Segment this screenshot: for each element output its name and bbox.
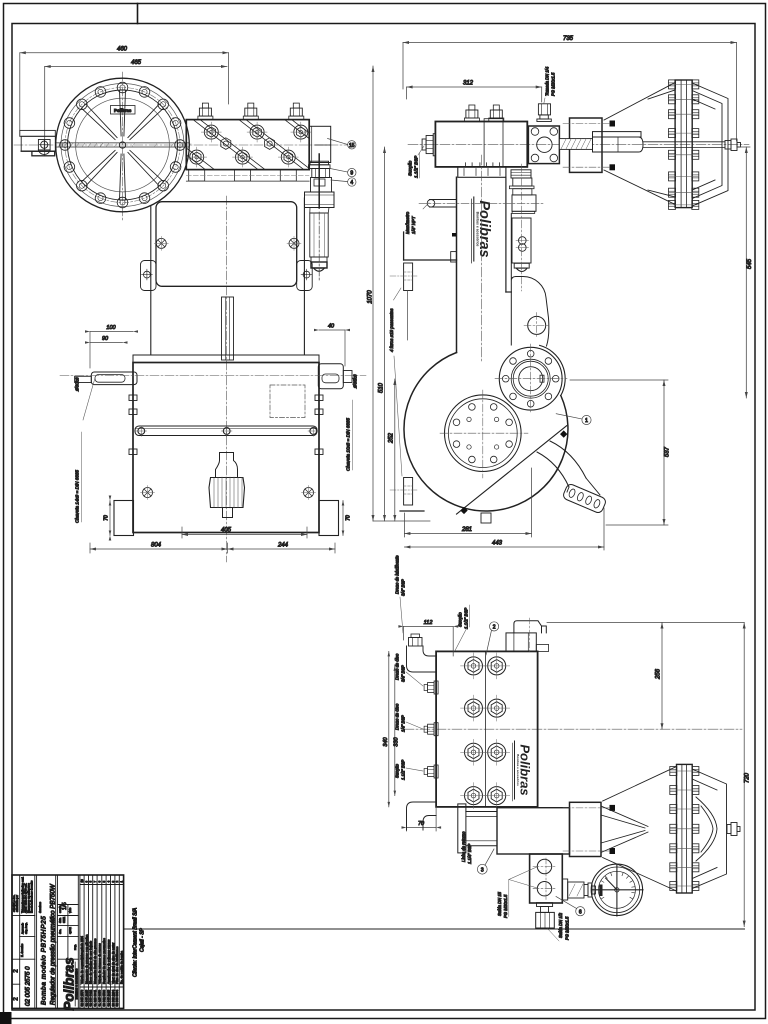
svg-text:Valvula de retencao da succao: Valvula de retencao da succao	[98, 943, 102, 984]
upper foot with dashed hole	[390, 263, 418, 340]
balloon 3	[477, 849, 494, 874]
svg-text:112: 112	[424, 620, 433, 626]
svg-text:1.1/2" BSP: 1.1/2" BSP	[464, 608, 469, 629]
title block grid	[12, 875, 124, 1008]
dim 112	[398, 625, 458, 656]
svg-text:Regulador de pressão pneumátic: Regulador de pressão pneumático PB750W	[50, 883, 57, 1005]
svg-text:804: 804	[151, 543, 162, 549]
dim 465	[45, 65, 227, 156]
valve nuts lower row	[187, 147, 299, 167]
svg-text:312: 312	[463, 81, 474, 87]
svg-text:Mangueira flexivel de alta pre: Mangueira flexivel de alta pressao	[93, 938, 97, 984]
relief valve stack	[305, 154, 335, 280]
dim 256	[547, 623, 744, 730]
diagonal parting line	[457, 426, 567, 514]
dim 40	[314, 329, 350, 366]
svg-text:PG M20x1.5: PG M20x1.5	[565, 916, 570, 940]
right crankshaft end keyed	[318, 364, 352, 389]
svg-text:Sucção: Sucção	[458, 612, 463, 627]
svg-text:Cajati - SP: Cajati - SP	[140, 927, 146, 952]
lower foot	[390, 478, 424, 512]
dim 70 right	[342, 501, 345, 536]
discharge stack	[530, 854, 563, 903]
svg-text:Ø35k6: Ø35k6	[353, 374, 358, 389]
top studs	[464, 105, 479, 122]
svg-text:443: 443	[492, 541, 503, 547]
svg-text:6: 6	[579, 909, 582, 915]
bottom drain plug	[481, 513, 491, 523]
fluid end block	[186, 120, 309, 170]
drain assembly	[209, 453, 245, 518]
pulsation damper	[309, 126, 331, 162]
svg-text:Amortecedor de pulsacao succao: Amortecedor de pulsacao succao	[106, 939, 110, 984]
dim 537	[570, 380, 668, 525]
svg-text:descricao: descricao	[38, 901, 42, 913]
plunger rod hatched	[559, 139, 592, 150]
motor flange	[675, 80, 692, 208]
hub	[119, 142, 125, 148]
dim 1070 vertical right	[372, 66, 431, 521]
svg-text:70: 70	[104, 515, 110, 521]
svg-text:545: 545	[747, 258, 753, 269]
suction pads under block	[186, 170, 309, 182]
svg-text:1: 1	[585, 418, 588, 424]
oil filter column	[509, 164, 536, 291]
balloon 1	[556, 414, 591, 425]
svg-text:1.1/2" BSP: 1.1/2" BSP	[414, 155, 419, 178]
16 flange bolts	[60, 82, 186, 208]
center hex plugs	[221, 138, 275, 150]
gear housing	[150, 206, 152, 355]
svg-text:des.: des.	[58, 929, 62, 934]
bed plate left bracket	[20, 130, 56, 155]
svg-text:2: 2	[14, 969, 20, 973]
flywheel flange outer	[56, 78, 190, 212]
svg-text:2: 2	[14, 997, 20, 1001]
suction end cap	[422, 134, 435, 156]
svg-text:70: 70	[346, 515, 352, 521]
dim 545	[740, 147, 750, 398]
crankcase body	[133, 363, 319, 533]
power end top plate	[458, 163, 506, 177]
svg-text:Dreno de óleo: Dreno de óleo	[395, 653, 400, 680]
lower cover flange	[440, 390, 528, 478]
dim 70 left	[109, 496, 112, 541]
vertical centerline power end	[481, 155, 483, 362]
bell cone front	[601, 767, 677, 892]
svg-text:02 000 0064: 02 000 0064	[115, 989, 119, 1006]
flange through bolts front view	[670, 771, 699, 886]
dim 804 244	[90, 543, 335, 553]
pump axis centerline	[404, 728, 742, 730]
svg-text:01 025 0350: 01 025 0350	[98, 989, 102, 1006]
svg-text:Regulador de pressao pneumatic: Regulador de pressao pneumatico	[102, 938, 106, 984]
svg-text:Saída DN 1/2: Saída DN 1/2	[558, 912, 563, 938]
left bracket shelf	[404, 232, 457, 260]
drain dot	[452, 233, 456, 237]
svg-text:PG M20x1.5: PG M20x1.5	[503, 894, 508, 918]
dim 90	[85, 341, 128, 344]
svg-text:720: 720	[745, 772, 751, 783]
polibras logo v3	[512, 741, 532, 801]
svg-text:3: 3	[111, 881, 115, 883]
balloon 6	[556, 897, 585, 916]
svg-text:1/5: 1/5	[62, 902, 68, 910]
svg-text:537: 537	[665, 446, 671, 457]
svg-text:Sucção: Sucção	[395, 763, 400, 778]
svg-text:Dreno de óleo: Dreno de óleo	[395, 703, 400, 730]
gauge valve fitting	[562, 879, 595, 900]
svg-text:Dreno de lubrificante: Dreno de lubrificante	[395, 555, 400, 594]
svg-text:escala: escala	[58, 905, 62, 913]
svg-text:Visor do nivel de oleo do cart: Visor do nivel de oleo do carter	[111, 943, 115, 984]
dim 720	[743, 623, 746, 927]
svg-text:3/4" BSP: 3/4" BSP	[401, 579, 406, 596]
balloon 2	[486, 622, 499, 655]
leader balloons 15 9 4	[328, 139, 356, 187]
svg-text:Cliente: InterCement Brasil S/: Cliente: InterCement Brasil S/A	[133, 907, 139, 977]
svg-text:252: 252	[388, 432, 394, 444]
motor outline front	[692, 769, 726, 889]
svg-text:eng. resp.: eng. resp.	[24, 922, 28, 934]
crankcase arc	[404, 353, 568, 512]
svg-text:Aprovado: Aprovado	[21, 922, 25, 934]
svg-text:01 020 0041: 01 020 0041	[93, 989, 97, 1006]
crank centerline	[60, 375, 366, 377]
fluid end block side	[435, 119, 527, 167]
bearing lobe	[540, 345, 566, 395]
suction elbow	[537, 441, 607, 514]
polibras logo v2	[471, 197, 492, 263]
svg-text:No. de partida da bomba: No. de partida da bomba	[120, 951, 124, 984]
stub front	[727, 823, 740, 836]
dim 340 330	[388, 651, 397, 807]
bolt circle dashed	[65, 88, 180, 203]
spacer block	[563, 118, 615, 172]
svg-text:3: 3	[481, 867, 484, 873]
svg-text:6: 6	[98, 881, 102, 883]
svg-text:Qtde: Qtde	[80, 953, 84, 960]
svg-text:Bombas e acessórios: Bombas e acessórios	[475, 212, 479, 247]
dim 70 bottom	[402, 807, 442, 831]
svg-text:4: 4	[106, 881, 110, 883]
base manifold	[497, 808, 570, 854]
svg-text:4 furos ø19 passantes: 4 furos ø19 passantes	[389, 308, 394, 352]
svg-text:9: 9	[350, 171, 353, 177]
valve cover square	[528, 126, 559, 164]
svg-text:735: 735	[563, 36, 574, 42]
flange bolts	[669, 80, 699, 210]
svg-text:510: 510	[379, 382, 385, 393]
svg-text:00 002 0560: 00 002 0560	[102, 989, 106, 1006]
dim 443	[404, 508, 604, 550]
svg-text:Polibras: Polibras	[114, 108, 132, 113]
svg-text:100: 100	[106, 325, 116, 331]
power end body	[451, 177, 512, 352]
breather dashed square	[270, 385, 305, 418]
svg-text:2: 2	[493, 625, 496, 631]
bottom return pipe	[407, 802, 437, 830]
bearing block	[38, 140, 50, 155]
svg-text:5: 5	[102, 881, 106, 883]
svg-text:data: data	[58, 917, 62, 923]
valve nuts 2x4	[461, 653, 510, 809]
svg-text:4: 4	[350, 180, 353, 186]
inner rim	[68, 90, 178, 200]
svg-text:1/4" NPT: 1/4" NPT	[411, 216, 416, 234]
svg-text:90: 90	[102, 336, 109, 342]
flange through bolts side view	[669, 84, 699, 204]
svg-text:07/11: 07/11	[62, 916, 66, 923]
drive shaft rod	[55, 143, 191, 147]
svg-text:Tomada DN 1/4: Tomada DN 1/4	[545, 66, 550, 96]
suction flange left	[458, 804, 497, 853]
svg-text:340: 340	[383, 736, 389, 746]
coupling	[593, 132, 644, 152]
svg-text:Sucção: Sucção	[408, 160, 413, 176]
svg-text:405: 405	[221, 528, 232, 534]
dim 510	[383, 147, 386, 521]
drain plug bottom	[536, 903, 559, 941]
bearing flange	[495, 344, 567, 413]
svg-text:1070: 1070	[368, 290, 374, 304]
svg-text:Linha de retorno: Linha de retorno	[461, 831, 466, 862]
svg-text:244: 244	[277, 543, 289, 549]
cross bolt symbols	[142, 236, 312, 280]
title block outline	[12, 875, 124, 1008]
top vent box	[506, 618, 549, 654]
left crankshaft end keyed	[75, 372, 137, 385]
svg-text:1.1/2" BSP: 1.1/2" BSP	[401, 759, 406, 780]
svg-text:40: 40	[328, 324, 335, 330]
svg-text:Bombas e acessórios: Bombas e acessórios	[516, 754, 520, 786]
fluid end front block	[436, 651, 537, 807]
svg-text:7: 7	[93, 881, 97, 883]
cross bolts lower	[141, 486, 316, 500]
svg-text:256: 256	[656, 668, 662, 680]
svg-text:visto: visto	[68, 907, 72, 913]
pump centerline	[408, 144, 749, 146]
svg-text:465: 465	[131, 60, 142, 66]
shaft rod	[643, 142, 725, 148]
svg-text:substituido por: substituido por	[15, 895, 19, 912]
manometer pipe	[419, 200, 543, 210]
svg-text:3/4" BSP: 3/4" BSP	[401, 665, 406, 682]
svg-text:Saída DN 15: Saída DN 15	[497, 891, 502, 916]
svg-text:02 005 1015: 02 005 1015	[106, 989, 110, 1006]
svg-text:resp.: resp.	[73, 944, 77, 950]
svg-text:PG M20x1.5: PG M20x1.5	[551, 72, 556, 96]
svg-text:460: 460	[117, 47, 128, 53]
top-left drain pipe	[407, 634, 437, 672]
centerline vertical pump axis	[122, 72, 124, 220]
fold mark	[137, 4, 139, 24]
svg-text:281: 281	[461, 527, 472, 533]
svg-text:70: 70	[418, 821, 425, 827]
valve nuts upper row	[201, 122, 310, 142]
vent valve	[537, 104, 551, 122]
svg-text:Ø30k6: Ø30k6	[75, 377, 80, 392]
svg-text:15: 15	[349, 143, 355, 149]
motor outline	[692, 83, 728, 206]
dim 252	[393, 379, 396, 521]
foot left	[114, 501, 134, 536]
svg-text:1.1/4" BSP: 1.1/4" BSP	[467, 843, 472, 864]
lifting lug	[511, 214, 549, 347]
shaft stub	[725, 139, 741, 151]
left fittings	[424, 681, 438, 694]
foot right	[319, 501, 339, 536]
shaft cover slot	[222, 297, 234, 360]
svg-text:N. desenho: N. desenho	[20, 943, 24, 957]
motor flange front	[677, 764, 693, 893]
dim 312	[407, 86, 542, 103]
dim 100	[85, 330, 138, 368]
pressure gauge	[591, 864, 643, 916]
svg-text:Bomba modelo PB75HP25: Bomba modelo PB75HP25	[41, 916, 48, 1005]
side lugs	[129, 395, 323, 455]
svg-text:aprov.: aprov.	[68, 927, 72, 934]
svg-text:1/4" BSP: 1/4" BSP	[401, 715, 406, 732]
svg-text:Escala indicada no desenho: Escala indicada no desenho	[30, 880, 34, 913]
nameplate	[111, 106, 136, 115]
svg-text:02 005 2575 0: 02 005 2575 0	[25, 966, 32, 1006]
top studs	[198, 103, 304, 120]
dim 405	[182, 527, 307, 538]
dim 735	[403, 41, 737, 141]
frame bottom partial line	[124, 928, 745, 930]
svg-text:00 008 1204: 00 008 1204	[111, 989, 115, 1006]
sight bar	[135, 426, 319, 437]
svg-text:330: 330	[394, 736, 400, 746]
bell guard lines	[604, 83, 675, 205]
spacer block front	[563, 802, 615, 856]
dim 460	[20, 51, 229, 130]
svg-text:Chaveta 14x9 = DIN 6885: Chaveta 14x9 = DIN 6885	[75, 470, 80, 523]
svg-text:Chaveta 10x8 = DIN 6885: Chaveta 10x8 = DIN 6885	[346, 418, 351, 471]
svg-text:Manômetro: Manômetro	[405, 211, 410, 234]
6 spokes	[82, 90, 164, 200]
centerline horizontal shaft axis	[14, 144, 348, 146]
dim 281	[404, 468, 531, 537]
waist	[133, 355, 319, 363]
corner mark	[0, 1012, 12, 1024]
